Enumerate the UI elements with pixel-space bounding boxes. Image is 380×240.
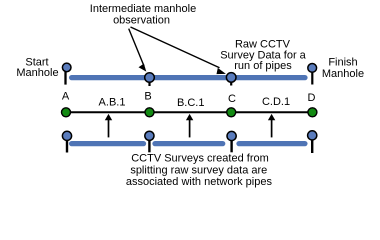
svg-text:C: C bbox=[228, 93, 236, 105]
survey manhole A stem bbox=[66, 136, 68, 153]
finish manhole bbox=[308, 64, 317, 73]
callout arrow to manhole B (raw run) bbox=[129, 29, 147, 72]
svg-text:B.C.1: B.C.1 bbox=[177, 97, 205, 109]
survey manhole B stem bbox=[148, 136, 150, 152]
network pipe line A-D (row 2) bbox=[66, 111, 313, 113]
network node D bbox=[308, 108, 317, 117]
svg-text:observation: observation bbox=[113, 14, 170, 26]
network node B bbox=[145, 108, 154, 117]
survey manhole B bbox=[145, 131, 154, 140]
label: Start Manhole bbox=[16, 57, 58, 80]
intermediate manhole B stem stub bbox=[148, 78, 150, 87]
caption: CCTV Surveys created from splitting raw survey data are associated with network pipes bbox=[126, 153, 273, 189]
svg-text:D: D bbox=[308, 92, 316, 104]
intermediate manhole C (row 1) bbox=[226, 73, 236, 83]
up arrow A.B.1 bbox=[105, 114, 112, 137]
svg-text:C.D.1: C.D.1 bbox=[262, 96, 290, 108]
survey manhole D bbox=[308, 131, 317, 140]
svg-text:Manhole: Manhole bbox=[322, 68, 364, 80]
up arrow B.C.1 bbox=[186, 114, 193, 137]
svg-text:CCTV Surveys created from: CCTV Surveys created from bbox=[131, 153, 269, 165]
survey manhole C bbox=[227, 131, 236, 140]
label: Raw CCTV Survey Data for a run of pipes bbox=[220, 39, 306, 73]
start manhole stem bbox=[64, 67, 66, 84]
callout arrow to manhole C (raw run) bbox=[131, 27, 226, 74]
label: Intermediate manhole observation bbox=[90, 3, 196, 26]
up arrow C.D.1 bbox=[268, 114, 275, 137]
split survey pipe C-D (row 3) bbox=[239, 141, 305, 146]
intermediate manhole B (row 1) bbox=[145, 73, 155, 83]
survey manhole D stem bbox=[311, 136, 313, 153]
svg-text:Manhole: Manhole bbox=[16, 67, 58, 79]
start manhole bbox=[62, 63, 71, 72]
svg-text:B: B bbox=[144, 91, 151, 103]
split survey pipe B-C (row 3) bbox=[155, 141, 223, 146]
svg-text:run of pipes: run of pipes bbox=[234, 60, 292, 72]
svg-text:Intermediate manhole: Intermediate manhole bbox=[90, 3, 196, 15]
survey manhole C stem bbox=[230, 136, 232, 152]
svg-text:A.B.1: A.B.1 bbox=[99, 97, 126, 109]
raw CCTV pipe run (row 1) bbox=[72, 75, 305, 80]
label: Finish Manhole bbox=[322, 57, 364, 81]
svg-text:splitting raw survey data are: splitting raw survey data are bbox=[130, 165, 267, 177]
network node A bbox=[62, 108, 71, 117]
network node C bbox=[227, 108, 236, 117]
split survey pipe A-B (row 3) bbox=[72, 141, 144, 146]
finish manhole stem bbox=[311, 68, 313, 85]
svg-text:associated with network pipes: associated with network pipes bbox=[126, 176, 273, 188]
svg-text:A: A bbox=[62, 91, 70, 103]
survey manhole A bbox=[62, 131, 71, 140]
intermediate manhole C stem stub bbox=[230, 77, 232, 85]
svg-text:Finish: Finish bbox=[328, 57, 357, 69]
